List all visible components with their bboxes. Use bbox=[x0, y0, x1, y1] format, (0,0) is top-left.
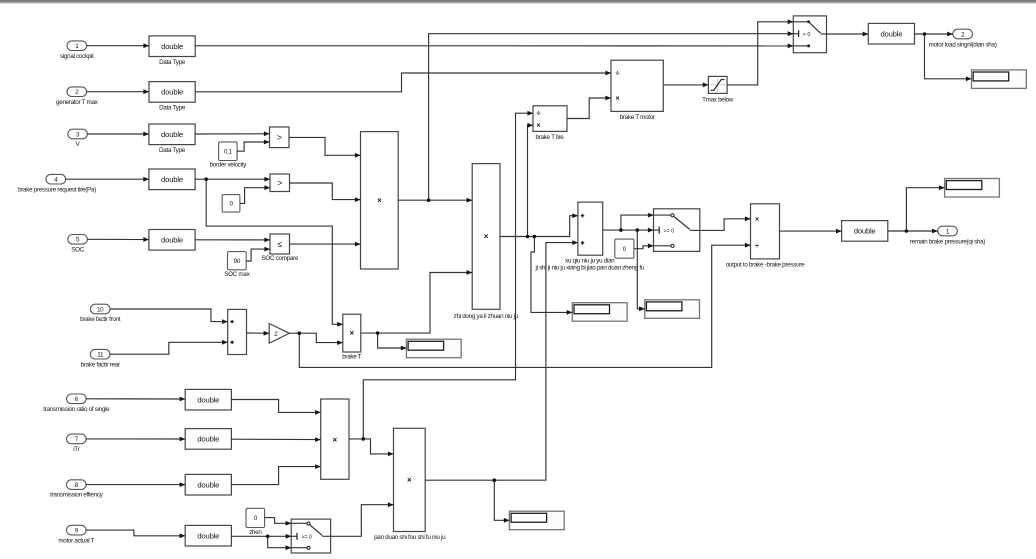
svg-text:brake T: brake T bbox=[342, 354, 362, 361]
switch block (>= 0, bottom) bbox=[291, 519, 330, 553]
svg-text:double: double bbox=[161, 235, 183, 244]
wire sum to gain bbox=[247, 331, 270, 336]
wire branch down to display xu-qiu left bbox=[531, 237, 572, 315]
constant 0.1 border velocity bbox=[210, 142, 248, 169]
data type conversion block (remain brake pressure) bbox=[842, 221, 888, 242]
svg-text:xu qiu niu ju yu dian: xu qiu niu ju yu dian bbox=[565, 258, 615, 265]
wire double5 to relational3 input1 bbox=[195, 238, 270, 243]
relational operator > (velocity) bbox=[270, 127, 290, 148]
svg-text:÷: ÷ bbox=[616, 70, 620, 77]
svg-text:motor load singnl(dian sha): motor load singnl(dian sha) bbox=[929, 42, 997, 49]
display block (motor load, top right) bbox=[972, 70, 1027, 89]
product block zhi dong ya li zhuan niu ju bbox=[454, 164, 519, 320]
wire port10 to sum input1 bbox=[110, 309, 228, 324]
wire double to output port2 bbox=[915, 32, 953, 37]
wire pan-duan output junction line bbox=[425, 479, 494, 481]
svg-text:> 0: > 0 bbox=[803, 32, 811, 38]
wire branch up to display remain brake pressure bbox=[906, 185, 944, 231]
product block P3 (transmission 3-input) bbox=[321, 399, 349, 479]
data type conversion block (signal cockpit) bbox=[149, 36, 195, 66]
junction double4 branch bbox=[204, 177, 208, 181]
wire constant 0 to switch2 input3 bbox=[634, 243, 654, 248]
wire double4 branch to brake T input1 bbox=[206, 179, 343, 327]
wire output-to-brake to double bbox=[780, 229, 842, 234]
svg-text:remain brake pressure(qi sha): remain brake pressure(qi sha) bbox=[910, 238, 985, 245]
svg-text:Tmax below: Tmax below bbox=[702, 97, 734, 104]
wire port4 to double4 bbox=[66, 177, 149, 182]
display block (xu qiu right) bbox=[645, 300, 700, 319]
display block (brake T) bbox=[406, 339, 461, 358]
wire zhi-dong output to xu-qiu input1 bbox=[500, 213, 578, 236]
wire gain branch to output-to-brake input2 bbox=[299, 243, 750, 368]
wire branch up to xu-qiu input2 bbox=[494, 240, 578, 480]
svg-text:×: × bbox=[536, 123, 540, 130]
output port 2 motor load bbox=[929, 29, 997, 48]
svg-text:11: 11 bbox=[97, 352, 104, 359]
wire double4 to relational2 input1 bbox=[195, 177, 270, 182]
junction brake T tire input2 branch bbox=[526, 235, 530, 239]
svg-text:zhi dong ya li zhuan niu ju: zhi dong ya li zhuan niu ju bbox=[454, 313, 519, 320]
svg-text:double: double bbox=[854, 227, 876, 236]
svg-text:double: double bbox=[880, 29, 902, 38]
input port 8 bbox=[50, 480, 104, 499]
svg-text:10: 10 bbox=[97, 306, 104, 313]
wire Tmax below to switch1 input1 bbox=[727, 19, 793, 85]
svg-text:×: × bbox=[332, 435, 337, 444]
wire double to output port1 bbox=[888, 229, 938, 234]
svg-text:double: double bbox=[197, 395, 219, 404]
wire brake T to zhi-dong input2 bbox=[361, 270, 472, 333]
junction motor load display branch bbox=[923, 32, 927, 36]
svg-text:double: double bbox=[197, 435, 219, 444]
junction switch1 control branch bbox=[427, 198, 431, 202]
svg-text:transmission effiency: transmission effiency bbox=[50, 492, 104, 499]
svg-text:double: double bbox=[161, 42, 183, 51]
data type conversion block (SOC) bbox=[149, 230, 195, 251]
svg-text:double: double bbox=[197, 531, 219, 540]
wire constant 0.1 to relational1 input2 bbox=[237, 140, 269, 152]
svg-text:≤: ≤ bbox=[277, 239, 282, 249]
wire switch3 to pan-duan input2 bbox=[331, 502, 394, 536]
wire transmission product branch to brake T tire input1 bbox=[363, 111, 533, 439]
wire switch2 to output-to-brake input1 bbox=[700, 216, 751, 230]
wire double3 to relational1 input1 bbox=[195, 131, 269, 136]
svg-text:brake T motor: brake T motor bbox=[620, 114, 655, 121]
wire double2 to brake T motor input1 bbox=[195, 71, 611, 92]
wire port1 to double1 bbox=[87, 43, 149, 48]
display block (pan duan) bbox=[509, 511, 564, 530]
wire double1 to switch1 input3 bbox=[195, 44, 793, 49]
constant 0 (switch middle-right) bbox=[615, 239, 634, 258]
svg-text:>= 0: >= 0 bbox=[664, 228, 675, 234]
svg-text:zhen: zhen bbox=[249, 529, 262, 536]
wire port11 to sum input2 bbox=[110, 340, 228, 354]
svg-text:pan duan shi fou shi fu niu ju: pan duan shi fou shi fu niu ju bbox=[374, 534, 446, 541]
relational operator > (pressure) bbox=[270, 174, 290, 192]
product block P1 (3-input) bbox=[361, 132, 399, 269]
junction switch2 input1 branch bbox=[619, 228, 623, 232]
svg-text:×: × bbox=[349, 329, 354, 338]
svg-text:Data Type: Data Type bbox=[159, 105, 186, 112]
wire double7 to product P3 input2 bbox=[231, 437, 321, 442]
svg-text:Data Type: Data Type bbox=[159, 147, 186, 154]
junction remain brake display branch bbox=[905, 229, 909, 233]
svg-text:double: double bbox=[161, 130, 183, 139]
data type conversion block (generator T max) bbox=[149, 82, 195, 112]
svg-text:SOC: SOC bbox=[71, 247, 84, 254]
svg-text:transmission ratio of single: transmission ratio of single bbox=[43, 406, 110, 413]
svg-text:×: × bbox=[755, 217, 759, 224]
svg-text:brake factir front: brake factir front bbox=[80, 316, 121, 323]
product block brake T bbox=[342, 314, 362, 360]
display block (xu qiu left) bbox=[572, 303, 627, 322]
divide block brake T motor bbox=[611, 60, 663, 121]
wire switch1 to double (motor load) bbox=[827, 32, 869, 37]
relational operator &le; SOC compare bbox=[261, 234, 298, 262]
divide block brake T tire bbox=[533, 106, 567, 141]
wire double8 to product P3 input3 bbox=[231, 464, 321, 484]
wire port3 to double3 bbox=[87, 132, 148, 137]
wire branch up to switch2 input1 bbox=[621, 213, 654, 230]
wire double6 to product P3 input1 bbox=[231, 400, 321, 415]
svg-text:90: 90 bbox=[234, 258, 241, 265]
svg-text:signal cockpit: signal cockpit bbox=[60, 53, 94, 60]
junction transmission product branch bbox=[362, 437, 366, 441]
switch block (>= 0, middle right) bbox=[654, 209, 700, 252]
wire port8 to double8 bbox=[86, 482, 185, 487]
product block pan duan shi fou shi fu niu ju bbox=[374, 428, 446, 541]
svg-text:SOC compare: SOC compare bbox=[261, 255, 298, 262]
wire double9 to switch3 control bbox=[231, 534, 291, 539]
constant 0 zhen bbox=[246, 508, 265, 536]
input port 1 bbox=[60, 41, 94, 60]
svg-text:0.1: 0.1 bbox=[224, 149, 233, 156]
input port 2 bbox=[56, 87, 99, 106]
svg-text:brake T tire: brake T tire bbox=[535, 134, 564, 141]
input port 6 bbox=[43, 394, 110, 413]
wire relational2 to product P1 input2 bbox=[290, 183, 361, 202]
svg-text:double: double bbox=[197, 480, 219, 489]
display block (remain brake pressure) bbox=[945, 179, 1000, 198]
svg-text:brake pressure request tire(Pa: brake pressure request tire(Pa) bbox=[18, 187, 96, 194]
wire constant zhen to switch3 input1 bbox=[265, 518, 292, 526]
wire xu-qiu to switch2 control bbox=[603, 228, 654, 233]
output port 1 remain brake pressure bbox=[910, 226, 985, 245]
wire product P1 to product zhi-dong input1 bbox=[398, 198, 472, 203]
wire brake T motor to Tmax below bbox=[663, 83, 708, 88]
wire branch down to display top-right bbox=[925, 34, 972, 81]
data type conversion block (motor load output) bbox=[868, 23, 914, 44]
svg-text:÷: ÷ bbox=[755, 243, 759, 250]
wire branch down to display pan-duan bbox=[494, 480, 509, 523]
input port 11 bbox=[81, 349, 120, 368]
svg-text:brake factir rear: brake factir rear bbox=[81, 361, 120, 368]
wire port6 to double6 bbox=[86, 397, 185, 402]
svg-text:>: > bbox=[277, 178, 282, 188]
data type conversion block (brake pressure) bbox=[149, 169, 195, 190]
input port 4 bbox=[18, 174, 96, 193]
divide block output to brake bbox=[726, 204, 805, 269]
svg-text:×: × bbox=[484, 232, 489, 241]
junction display branch (xu-qiu out) bbox=[636, 228, 640, 232]
svg-text:Data Type: Data Type bbox=[159, 59, 186, 66]
svg-text:output to brake -brake pressur: output to brake -brake pressure bbox=[726, 261, 805, 268]
wire constant 90 to relational3 input2 bbox=[246, 247, 270, 261]
wire transmission product to pan-duan input1 bbox=[349, 439, 394, 456]
top toolbar edge bbox=[0, 0, 1036, 4]
data type conversion block (V) bbox=[149, 124, 195, 154]
wire port9 to double9 bbox=[86, 530, 185, 538]
svg-text:generator T max: generator T max bbox=[56, 99, 99, 106]
constant 0 (upper) bbox=[222, 195, 240, 213]
svg-text:×: × bbox=[377, 196, 382, 205]
wire brake T to display bbox=[378, 333, 407, 350]
svg-text:>: > bbox=[277, 132, 282, 142]
wire relational3 to product P1 input3 bbox=[290, 242, 361, 247]
junction pan-duan output branch bbox=[493, 478, 497, 482]
sum block xu qiu niu ju bbox=[535, 202, 645, 272]
svg-text:×: × bbox=[616, 95, 620, 102]
wire branch to switch3 input3 bbox=[268, 536, 292, 550]
junction switch3 input3 branch bbox=[266, 535, 270, 539]
gain block 2 bbox=[269, 324, 289, 344]
svg-text:SOC max: SOC max bbox=[224, 271, 250, 278]
sum block (brake factor front+rear) bbox=[228, 309, 247, 354]
input port 5 bbox=[68, 235, 88, 254]
data type conversion block (transmission ratio) bbox=[185, 389, 231, 410]
svg-text:÷: ÷ bbox=[536, 111, 540, 118]
data type conversion block (transmission effiency) bbox=[185, 474, 231, 495]
input port 10 bbox=[80, 304, 121, 323]
svg-text:×: × bbox=[407, 476, 412, 485]
svg-text:border velocity: border velocity bbox=[210, 162, 248, 169]
wire branch up to brake T tire input2 bbox=[527, 123, 533, 237]
switch block (> 0, top right) bbox=[793, 16, 826, 53]
junction gain output branch bbox=[298, 331, 302, 335]
wire relational1 to product P1 input1 bbox=[289, 137, 361, 157]
constant 90 SOC max bbox=[224, 252, 250, 278]
wire port5 to double5 bbox=[87, 237, 148, 242]
junction display branch (zhi-dong out) bbox=[533, 235, 537, 239]
svg-text:motor actual T: motor actual T bbox=[58, 537, 94, 544]
wire constant 0 to relational2 input2 bbox=[240, 185, 270, 203]
saturation block Tmax below bbox=[702, 76, 734, 103]
svg-text:double: double bbox=[161, 175, 183, 184]
wire gain branch to brake T input2 bbox=[289, 333, 342, 345]
svg-text:>= 0: >= 0 bbox=[301, 534, 312, 540]
wire port2 to double2 bbox=[87, 89, 149, 94]
svg-text:ji shi ji niu ju xiang bi jiao: ji shi ji niu ju xiang bi jiao pan duan … bbox=[535, 265, 645, 272]
input port 3 bbox=[68, 129, 88, 148]
junction brake T output branch bbox=[376, 331, 380, 335]
wire port7 to double7 bbox=[86, 437, 185, 442]
input port 9 bbox=[58, 525, 94, 544]
svg-text:iTr: iTr bbox=[73, 446, 79, 453]
wire branch down to display xu-qiu right bbox=[637, 230, 644, 311]
data type conversion block (iTr) bbox=[185, 429, 231, 450]
input port 7 bbox=[67, 434, 87, 453]
svg-text:double: double bbox=[161, 88, 183, 97]
data type conversion block (motor actual T) bbox=[185, 525, 231, 546]
wire branch up to switch1 control bbox=[429, 31, 794, 200]
wire brake T tire to brake T motor input2 bbox=[567, 96, 611, 119]
